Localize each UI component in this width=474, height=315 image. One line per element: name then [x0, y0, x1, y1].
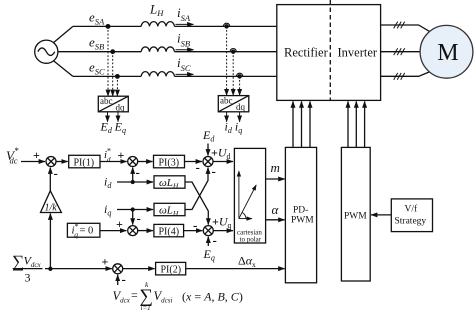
wire id row [117, 181, 153, 183]
svg-text:Vdcx: Vdcx [113, 289, 131, 305]
hatch marks mid line [394, 48, 405, 55]
label Vdcx formula [113, 288, 139, 305]
label abc dq box2 [220, 96, 246, 113]
svg-text:id: id [104, 175, 112, 191]
abc/dq block U2 (voltage transform) [98, 96, 128, 112]
svg-text:PD-: PD- [293, 206, 308, 216]
svg-text:Inverter: Inverter [338, 46, 378, 60]
wire i*q block to S4 [100, 230, 127, 232]
cart axes vertical [238, 171, 240, 219]
V/f strategy block U7 [391, 199, 432, 232]
svg-text:-: - [212, 164, 216, 179]
svg-text:eSC: eSC [89, 59, 105, 76]
wire phase C to rectifier [175, 75, 277, 77]
label V/f Strategy [395, 204, 427, 227]
svg-text:m: m [271, 160, 280, 175]
svg-text:i*q= 0: i*q= 0 [72, 222, 94, 239]
svg-text:-: - [196, 160, 200, 175]
svg-text:abc: abc [100, 96, 113, 106]
rectifier-inverter block U1 [277, 5, 381, 101]
motor M1 [420, 25, 473, 78]
svg-text:iq: iq [104, 202, 111, 218]
wire into S7 [108, 268, 112, 270]
wire PWM to inverter 3 [364, 101, 366, 147]
svg-text:V/f: V/f [405, 204, 419, 215]
wire Eq into S6 [207, 237, 209, 246]
inductor LH phase A [141, 22, 174, 27]
node id branch [131, 181, 134, 184]
wire S7 to PI(2) [123, 268, 155, 270]
dashed wire voltage A to abc-dq1 [107, 26, 109, 96]
wire iq branch down to S4 [132, 210, 134, 225]
wire PD-PWM to rectifier 1 [292, 101, 294, 147]
wire alpha output to PD-PWM [266, 219, 285, 221]
omega-LH block X1 [154, 176, 185, 188]
svg-text:+: + [118, 148, 125, 162]
svg-text:3: 3 [25, 271, 31, 285]
svg-text:+: + [102, 255, 109, 269]
svg-text:M: M [437, 40, 458, 66]
wire phase C fan from source [54, 61, 73, 77]
wire Vdc* input [21, 161, 45, 163]
wire PI(4) to S6 [184, 230, 203, 232]
dashed wire voltage C to abc-dq1 [116, 76, 118, 96]
svg-text:LH: LH [149, 2, 164, 19]
inductor LH phase C [141, 72, 174, 77]
svg-text:-: - [193, 218, 197, 233]
svg-text:eSA: eSA [89, 9, 105, 26]
svg-text:PI(3): PI(3) [159, 157, 180, 168]
wire iq output of abc-dq2 [239, 112, 241, 122]
wire Vdcx up into S7 [117, 275, 119, 285]
current arrow iSA [176, 23, 194, 25]
PD-PWM block U5 [285, 147, 316, 282]
svg-text:iSB: iSB [177, 30, 190, 48]
wire PD-PWM to rectifier 3 [309, 101, 311, 147]
omega-LH block X2 [154, 203, 185, 215]
svg-text:-: - [137, 211, 141, 226]
svg-text:+Ud: +Ud [211, 146, 231, 162]
svg-text:iSA: iSA [177, 5, 191, 23]
svg-text:-: - [136, 165, 140, 180]
label abc dq box1 [100, 96, 125, 112]
svg-text:idiq: idiq [225, 120, 243, 136]
wire 1/k output to S1 [49, 168, 51, 191]
wire phase C line left of inductor [73, 75, 141, 77]
svg-text:1/k: 1/k [45, 203, 58, 214]
dashed divider rectifier/inverter [329, 0, 331, 100]
node voltage tap C [116, 75, 120, 79]
svg-text:PWM: PWM [291, 216, 314, 226]
wire Eq output of abc-dq1 [117, 112, 119, 122]
wire phase A to rectifier [175, 25, 277, 27]
current sensor bump B [230, 49, 236, 54]
svg-text:+: + [33, 148, 40, 162]
label PD-PWM [291, 206, 314, 226]
wire iq row [117, 209, 153, 211]
current arrow iSB [176, 49, 194, 51]
wire inverter output mid [381, 51, 420, 53]
node voltage tap A [106, 25, 110, 29]
wire X1 cross down to S6 [185, 182, 208, 225]
wire Ed into S3 [207, 144, 209, 156]
wire phase B from source [58, 51, 141, 53]
inductor LH phase B [141, 47, 174, 52]
node sumVdc branch [49, 267, 52, 270]
svg-text:Strategy: Strategy [395, 217, 427, 227]
svg-text:V*dc: V*dc [6, 146, 19, 166]
wire phase A line left of inductor [73, 25, 141, 27]
wire m output to PD-PWM [266, 178, 285, 180]
wire id output of abc-dq2 [226, 112, 228, 122]
svg-text:Vdcsi: Vdcsi [154, 289, 173, 305]
wire branch up to 1/k [49, 214, 51, 269]
cart angle arc [242, 213, 246, 219]
svg-text:abc: abc [220, 96, 233, 106]
svg-text:EdEq: EdEq [100, 120, 126, 136]
svg-text:iSC: iSC [177, 55, 191, 73]
svg-text:dq: dq [236, 102, 246, 112]
svg-text:PI(1): PI(1) [74, 157, 95, 168]
svg-text:-: - [54, 166, 58, 181]
wire S2 to PI(3) [138, 161, 153, 163]
svg-text:PI(2): PI(2) [161, 264, 182, 275]
summing junction S2 [128, 157, 138, 167]
label cartesian to polar [237, 229, 262, 244]
wire Ed output of abc-dq1 [107, 112, 109, 122]
summing junction S1 [46, 157, 56, 167]
svg-text:dq: dq [116, 102, 126, 112]
svg-text:PI(4): PI(4) [159, 226, 180, 237]
wire S1 to PI(1) [56, 161, 68, 163]
summing junction S6 [203, 226, 213, 236]
wire inverter output bottom [381, 72, 430, 76]
current sensor bump C [236, 73, 242, 78]
label sum Vdcx over 3 [12, 252, 43, 285]
svg-text:∑: ∑ [12, 252, 24, 271]
wire X2 cross up to S3 [185, 168, 208, 210]
PI(1) controller [69, 155, 100, 168]
current arrow iSC [176, 73, 194, 75]
svg-text:(x = A, B, C): (x = A, B, C) [182, 290, 243, 304]
wire phase B to rectifier [175, 51, 277, 53]
dashed wire current A to abc-dq2 [226, 26, 228, 95]
svg-text:PWM: PWM [344, 212, 367, 222]
current sensor bump A [223, 23, 229, 28]
wire PD-PWM to rectifier 2 [301, 101, 303, 147]
summing junction S7 [113, 264, 123, 274]
svg-text:-: - [122, 272, 126, 287]
svg-text:α: α [272, 202, 280, 217]
wire PWM to inverter 2 [355, 101, 357, 147]
wire id branch up to S2 [132, 168, 134, 183]
wire V/f to PWM [371, 214, 391, 216]
wire inverter output top [381, 25, 430, 31]
dashed wire current C to abc-dq2 [239, 76, 241, 95]
svg-text:to polar: to polar [240, 236, 262, 244]
PI(4) controller [154, 224, 184, 236]
label formula sigma [140, 280, 154, 312]
svg-text:Vdcx: Vdcx [24, 254, 42, 270]
svg-text:i=1: i=1 [141, 304, 151, 312]
wire sumVdc line [45, 268, 112, 270]
svg-text:Rectifier: Rectifier [284, 46, 329, 60]
hatch marks bottom line [394, 73, 405, 80]
dashed wire voltage B to abc-dq1 [112, 52, 114, 96]
summing junction S3 [203, 157, 213, 167]
svg-text:Eq: Eq [203, 247, 215, 263]
divider gain 1/k triangle A1 [41, 191, 62, 213]
wire PI(2) to PD-PWM (delta alpha) [186, 268, 285, 270]
wire PI(1) to S2 [100, 161, 127, 163]
PWM block U6 [341, 147, 370, 281]
node voltage tap B [111, 50, 115, 54]
svg-text:+Uq: +Uq [212, 215, 232, 231]
svg-text:-: - [213, 233, 217, 248]
cart axes horizontal [239, 218, 252, 220]
wire phase A fan from source [54, 26, 73, 42]
svg-text:=: = [131, 288, 138, 302]
cartesian to polar block U4 [234, 148, 265, 243]
PI(2) controller [156, 262, 186, 275]
wire PI(3) to S3 [185, 161, 203, 163]
svg-text:+: + [116, 217, 123, 231]
svg-text:Ed: Ed [202, 128, 215, 144]
AC source G1 [35, 40, 58, 63]
hatch marks top line [394, 22, 405, 29]
wire S4 to PI(4) [138, 230, 153, 232]
abc/dq block U3 (current transform) [218, 96, 249, 112]
wire PWM to inverter 1 [347, 101, 349, 147]
PI(3) controller [154, 155, 185, 168]
wire S3 to cartesian block (Ud) [213, 161, 233, 163]
i*q = 0 block [67, 223, 100, 237]
svg-text:eSB: eSB [89, 35, 104, 52]
node iq branch [131, 208, 134, 211]
dashed wire current B to abc-dq2 [232, 52, 234, 96]
cart vector [239, 185, 256, 219]
svg-text:Δαx: Δαx [238, 254, 256, 270]
wire S6 to cartesian block (Uq) [213, 230, 233, 232]
summing junction S4 [128, 226, 138, 236]
